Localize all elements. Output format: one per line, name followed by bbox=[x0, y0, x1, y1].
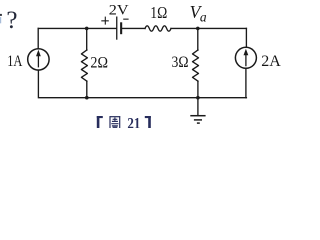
svg-text:a: a bbox=[200, 10, 207, 25]
wire ground stub bbox=[197, 98, 199, 115]
caption right bracket bbox=[145, 116, 151, 128]
resistor R 3-ohm (vertical zigzag) bbox=[193, 50, 199, 81]
battery minus sign bbox=[123, 19, 128, 20]
svg-text:21: 21 bbox=[127, 115, 140, 128]
wire 3-ohm branch bottom stub bbox=[197, 81, 199, 98]
wire right rail lower bbox=[245, 68, 247, 97]
current source I2 arrow bbox=[244, 49, 249, 67]
wire top rail left segment bbox=[38, 27, 116, 29]
current source I2 2A circle bbox=[235, 47, 256, 68]
current source I1 1A circle bbox=[28, 49, 49, 70]
wire 2-ohm branch bottom stub bbox=[86, 81, 88, 98]
battery V1 long plate (+) bbox=[116, 17, 117, 40]
svg-text:1Ω: 1Ω bbox=[150, 3, 167, 22]
wire left rail upper bbox=[37, 28, 39, 48]
caption character tu (figure) simplified bbox=[110, 116, 121, 128]
junction node dot Va (3-ohm top) bbox=[196, 27, 200, 31]
junction node dot (2-ohm bottom) bbox=[85, 96, 89, 100]
wire left rail lower bbox=[38, 70, 246, 98]
svg-text:3Ω: 3Ω bbox=[172, 53, 189, 71]
svg-text:?: ? bbox=[6, 7, 17, 34]
junction node dot (3-ohm bottom / ground) bbox=[196, 96, 200, 100]
resistor R 1-ohm (horizontal wave) bbox=[145, 26, 171, 31]
current source I1 arrow bbox=[36, 50, 41, 68]
caption left bracket bbox=[97, 116, 103, 128]
svg-text:2Ω: 2Ω bbox=[90, 54, 108, 72]
svg-text:2A: 2A bbox=[261, 51, 281, 70]
svg-text:1A: 1A bbox=[7, 51, 22, 70]
svg-text:2V: 2V bbox=[109, 2, 129, 19]
junction node dot (2-ohm top) bbox=[85, 27, 89, 31]
ground symbol bbox=[190, 116, 205, 123]
wire top rail right segment bbox=[171, 27, 246, 29]
wire top rail middle segment (battery to 1-ohm) bbox=[122, 27, 145, 29]
battery plus sign bbox=[101, 17, 109, 25]
wire 2-ohm branch top stub bbox=[86, 28, 88, 50]
fragment of cut-off character at left edge bbox=[0, 14, 2, 16]
wire 3-ohm branch top stub bbox=[197, 28, 199, 50]
resistor R 2-ohm (vertical zigzag) bbox=[81, 50, 87, 81]
wire right rail upper bbox=[245, 28, 247, 47]
battery V1 short plate (-) bbox=[120, 22, 122, 34]
